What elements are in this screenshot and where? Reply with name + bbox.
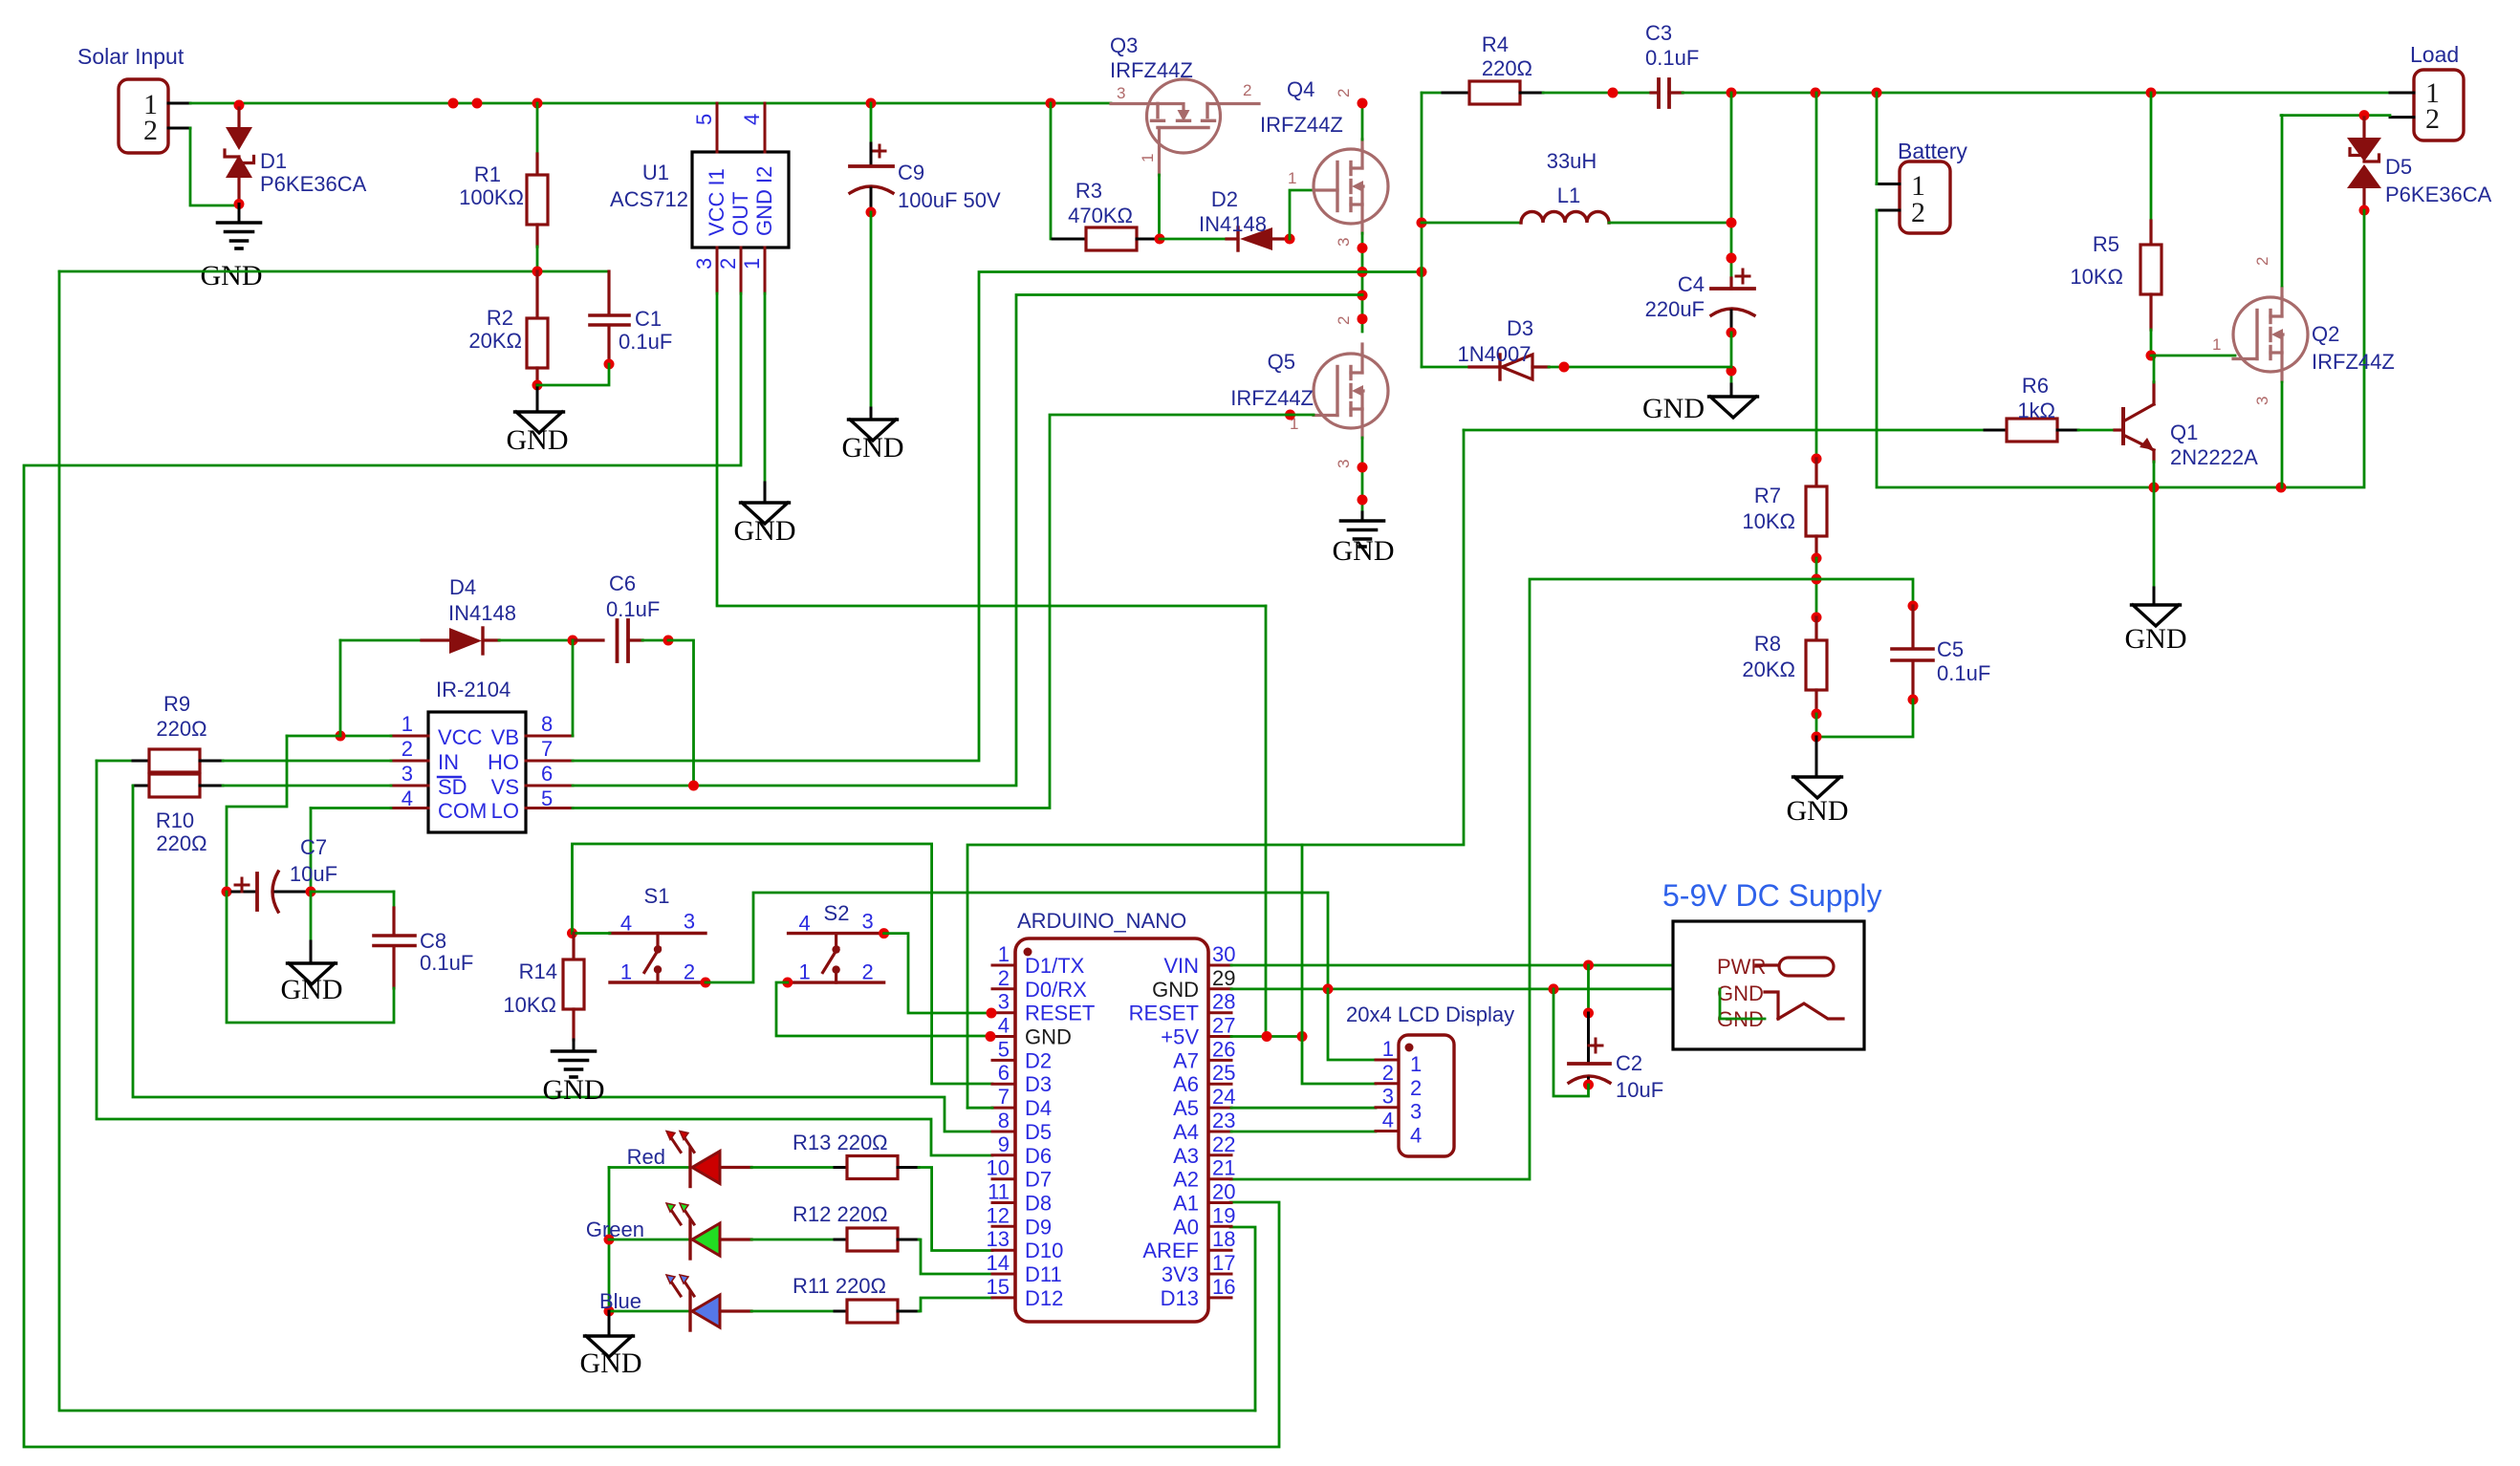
svg-text:0.1uF: 0.1uF — [619, 330, 672, 354]
svg-text:3: 3 — [1382, 1085, 1394, 1109]
node Q1 emitter / Q2 source on battery- row — [2149, 483, 2160, 493]
svg-text:5-9V DC Supply: 5-9V DC Supply — [1662, 878, 1881, 913]
svg-text:20x4 LCD Display: 20x4 LCD Display — [1346, 1002, 1514, 1026]
svg-text:HO: HO — [488, 750, 519, 774]
svg-text:2: 2 — [998, 966, 1010, 990]
svg-text:10uF: 10uF — [290, 862, 337, 886]
resistor R6 — [1985, 429, 2007, 432]
svg-text:2: 2 — [1335, 316, 1353, 325]
node C2 bottom — [1583, 1080, 1594, 1090]
svg-text:4: 4 — [798, 912, 810, 936]
wire S1 pin4 feed — [573, 932, 611, 935]
svg-text:R9: R9 — [163, 692, 190, 716]
svg-text:3: 3 — [1117, 84, 1125, 102]
svg-text:6: 6 — [541, 762, 553, 786]
svg-text:D12: D12 — [1025, 1286, 1063, 1310]
svg-text:U1: U1 — [642, 161, 669, 184]
svg-text:D8: D8 — [1025, 1192, 1052, 1216]
node D5 bottom — [2359, 205, 2370, 216]
wire S1 pin2 to gnd row — [706, 893, 1328, 992]
svg-text:GND: GND — [201, 260, 263, 291]
svg-text:R1: R1 — [474, 162, 501, 186]
svg-text:23: 23 — [1212, 1109, 1235, 1132]
wire A5 to LCD pin3 — [1231, 1107, 1376, 1110]
svg-text:20KΩ: 20KΩ — [468, 329, 522, 353]
wire D2 to Q4 gate — [1290, 190, 1314, 239]
wire divider row to left rail — [59, 270, 609, 273]
wire D4 riser to R6 — [1464, 429, 1985, 432]
diode D4 IN4148 — [340, 639, 422, 642]
svg-text:8: 8 — [998, 1109, 1010, 1132]
svg-text:12: 12 — [987, 1203, 1010, 1227]
svg-text:D6: D6 — [1025, 1144, 1052, 1168]
node GND pin4 — [986, 1031, 996, 1042]
LED Green — [688, 1220, 691, 1259]
svg-text:2: 2 — [2425, 103, 2440, 135]
svg-text:C2: C2 — [1616, 1051, 1642, 1075]
connector Load — [2414, 70, 2464, 140]
svg-text:IN4148: IN4148 — [448, 601, 516, 625]
ground C7 — [288, 963, 337, 984]
ground R14 (earth) — [573, 1040, 576, 1050]
wire Q2 source to battery- row — [2281, 382, 2284, 487]
svg-text:16: 16 — [1212, 1275, 1235, 1299]
svg-text:0.1uF: 0.1uF — [1645, 46, 1699, 70]
svg-text:R2: R2 — [487, 306, 513, 330]
node C9 bottom — [866, 207, 877, 218]
svg-text:IN: IN — [438, 750, 459, 774]
svg-text:Solar Input: Solar Input — [77, 44, 185, 69]
wire Q2 drain to load pin2 row — [2281, 116, 2284, 286]
inductor L1 — [1422, 222, 1521, 225]
svg-text:18: 18 — [1212, 1227, 1235, 1251]
svg-text:C4: C4 — [1678, 272, 1705, 296]
svg-text:VCC I1: VCC I1 — [705, 168, 728, 236]
node C6 right — [663, 636, 674, 646]
svg-text:10KΩ: 10KΩ — [2070, 265, 2123, 289]
wire LED common column — [608, 1168, 611, 1312]
svg-text:5: 5 — [998, 1037, 1010, 1061]
wire solar- to D1 — [190, 128, 239, 205]
pin U1.2 — [740, 248, 743, 293]
svg-text:ARDUINO_NANO: ARDUINO_NANO — [1017, 909, 1186, 933]
resistor R7 — [1814, 459, 1817, 486]
svg-text:D7: D7 — [1025, 1168, 1052, 1192]
LED Red — [688, 1149, 691, 1187]
wire green LED row — [609, 1239, 690, 1241]
svg-text:R6: R6 — [2022, 374, 2049, 398]
ground C9 — [849, 420, 898, 441]
svg-text:R7: R7 — [1754, 484, 1781, 507]
svg-text:10KΩ: 10KΩ — [1742, 509, 1795, 533]
svg-text:3V3: 3V3 — [1162, 1262, 1199, 1286]
svg-text:13: 13 — [987, 1227, 1010, 1251]
resistor R3 — [1053, 238, 1086, 241]
svg-text:220Ω: 220Ω — [156, 717, 206, 741]
svg-text:D1: D1 — [260, 149, 287, 173]
wire solar+ top rail — [190, 102, 1111, 105]
pin U1.5 — [716, 103, 719, 152]
ground LED common — [608, 1311, 611, 1335]
wire GND to LCD pin1 — [1328, 989, 1376, 1060]
wire VS to switch node — [573, 295, 1362, 787]
svg-text:29: 29 — [1212, 966, 1235, 990]
svg-text:A2: A2 — [1173, 1168, 1199, 1192]
svg-text:C7: C7 — [300, 835, 327, 859]
svg-text:2: 2 — [716, 258, 740, 269]
svg-text:D2: D2 — [1025, 1048, 1052, 1072]
node R7 bottom — [1812, 553, 1822, 564]
svg-text:7: 7 — [998, 1085, 1010, 1109]
resistor R9 — [97, 760, 133, 763]
svg-text:Q5: Q5 — [1268, 350, 1295, 374]
svg-text:A0: A0 — [1173, 1215, 1199, 1239]
node above R7 — [1812, 454, 1822, 464]
resistor R4 — [1469, 81, 1520, 104]
svg-text:0.1uF: 0.1uF — [606, 597, 660, 621]
svg-text:7: 7 — [541, 737, 553, 761]
resistor R13 — [751, 1166, 835, 1169]
svg-text:R13 220Ω: R13 220Ω — [793, 1131, 888, 1154]
svg-text:2: 2 — [1382, 1061, 1394, 1085]
svg-text:100KΩ: 100KΩ — [459, 185, 524, 209]
svg-text:GND: GND — [580, 1347, 642, 1379]
svg-text:2: 2 — [1410, 1076, 1422, 1100]
diode D3 1N4007 — [1469, 365, 1500, 368]
wire mid node to C5 — [1816, 579, 1913, 606]
svg-text:IRFZ44Z: IRFZ44Z — [2312, 350, 2395, 374]
svg-text:10uF: 10uF — [1616, 1078, 1663, 1102]
switch S1 — [610, 932, 706, 935]
svg-text:+5V: +5V — [1161, 1025, 1199, 1049]
ground Q5 (earth) — [1341, 519, 1384, 523]
resistor R2 — [535, 271, 538, 318]
wire C4 to D3 node — [1730, 333, 1733, 384]
wire +5V row — [1231, 1035, 1302, 1038]
wire C5 return — [1816, 700, 1913, 737]
svg-text:10: 10 — [987, 1156, 1010, 1180]
svg-text:D5: D5 — [2385, 155, 2412, 179]
svg-text:A3: A3 — [1173, 1144, 1199, 1168]
wire load pin2 row — [2281, 114, 2390, 117]
svg-text:220Ω: 220Ω — [156, 831, 206, 855]
node before C3 — [1608, 88, 1618, 98]
svg-text:GND: GND — [734, 515, 796, 547]
wire switch node to L1 column — [1362, 270, 1422, 273]
ground R2 — [536, 385, 539, 411]
capacitor C2 electrolytic — [1587, 965, 1590, 1013]
svg-text:9: 9 — [998, 1132, 1010, 1156]
wire divider tap to A0 rail — [59, 271, 1255, 1411]
svg-text:GND: GND — [543, 1074, 605, 1106]
junction dots top rail — [448, 98, 459, 109]
wire C7- to ground — [310, 892, 313, 941]
IC U2 IR-2104 box — [428, 712, 526, 832]
wire +5V to LCD pin2 — [1302, 1037, 1376, 1085]
pin1 marker Arduino — [1024, 948, 1032, 957]
svg-text:GND: GND — [507, 424, 569, 456]
svg-text:10KΩ: 10KΩ — [503, 993, 556, 1017]
wire VIN row to supply — [1231, 964, 1756, 967]
svg-text:R5: R5 — [2093, 232, 2119, 256]
svg-text:2N2222A: 2N2222A — [2170, 445, 2258, 469]
node D3 anode — [1559, 362, 1570, 373]
node R8 bottom — [1812, 709, 1822, 720]
svg-text:D5: D5 — [1025, 1120, 1052, 1144]
svg-text:3: 3 — [1410, 1100, 1422, 1124]
wire Q4 source node chain — [1361, 233, 1364, 332]
svg-text:3: 3 — [402, 762, 413, 786]
svg-text:GND: GND — [842, 432, 904, 464]
svg-text:COM: COM — [438, 799, 487, 823]
svg-text:17: 17 — [1212, 1251, 1235, 1275]
node D1 bottom — [234, 199, 245, 209]
svg-text:1: 1 — [1410, 1052, 1422, 1076]
node R2 bottom — [532, 380, 543, 391]
ground Q1 — [2132, 605, 2181, 626]
IC U1 ACS712 box — [692, 152, 789, 248]
svg-text:R14: R14 — [519, 959, 557, 983]
LCD pin stubs — [1376, 1059, 1399, 1062]
wire D4 to R6/+5V net — [967, 1107, 992, 1110]
svg-text:Q1: Q1 — [2170, 420, 2198, 444]
svg-text:15: 15 — [987, 1275, 1010, 1299]
ground R8 — [1815, 737, 1818, 776]
svg-text:GND: GND — [1717, 981, 1764, 1005]
svg-text:P6KE36CA: P6KE36CA — [2385, 183, 2492, 206]
svg-text:GND: GND — [1333, 535, 1395, 567]
svg-text:20: 20 — [1212, 1180, 1235, 1204]
svg-text:5: 5 — [692, 114, 716, 125]
svg-text:A1: A1 — [1173, 1192, 1199, 1216]
svg-text:ACS712: ACS712 — [610, 187, 688, 211]
ground D1 (earth) — [238, 205, 241, 222]
wire LO to Q5 gate — [573, 415, 1291, 808]
svg-text:1: 1 — [620, 960, 632, 984]
wire C8 bottom loop to C7+ — [227, 892, 394, 1023]
svg-text:1: 1 — [1139, 154, 1157, 162]
svg-text:D0/RX: D0/RX — [1025, 978, 1087, 1002]
svg-text:C8: C8 — [420, 929, 446, 953]
svg-text:1kΩ: 1kΩ — [2017, 399, 2055, 422]
svg-text:3: 3 — [2253, 397, 2271, 405]
connector P1 Solar Input — [119, 79, 168, 153]
wire R13 to D10 — [919, 1168, 992, 1251]
transistor Q5 IRFZ44Z — [1314, 354, 1388, 428]
svg-text:D10: D10 — [1025, 1239, 1063, 1262]
wire R11 to D12 — [919, 1298, 992, 1311]
wire VB riser — [572, 640, 575, 736]
resistor R1 — [536, 103, 539, 154]
svg-text:A4: A4 — [1173, 1120, 1199, 1144]
pin stub P1.1 — [168, 102, 190, 105]
svg-text:4: 4 — [620, 912, 632, 936]
wire C4 column top — [1730, 93, 1733, 278]
pin U1.4 — [764, 103, 767, 152]
svg-text:R10: R10 — [156, 808, 194, 832]
svg-text:20KΩ: 20KΩ — [1742, 658, 1795, 681]
diode D2 IN4148 — [1227, 237, 1238, 240]
svg-text:220uF: 220uF — [1645, 297, 1705, 321]
resistor R10 — [133, 785, 149, 787]
pin stubs Load — [2390, 92, 2414, 95]
svg-text:L1: L1 — [1557, 183, 1580, 207]
transistor Q4 IRFZ44Z — [1314, 149, 1388, 224]
svg-text:A6: A6 — [1173, 1072, 1199, 1096]
diode D5 TVS — [2362, 118, 2365, 140]
svg-text:SD: SD — [438, 775, 467, 799]
svg-text:GND: GND — [281, 974, 343, 1005]
wire C1 to R2 bottom — [537, 364, 609, 385]
wire Q3 gate drop / R3 riser — [1050, 103, 1053, 239]
wire Q5 gate lead — [1291, 414, 1314, 417]
svg-text:VS: VS — [491, 775, 519, 799]
wire R12 to D11 — [919, 1240, 992, 1274]
svg-text:R3: R3 — [1075, 179, 1102, 203]
svg-text:D1/TX: D1/TX — [1025, 954, 1085, 978]
svg-text:Battery: Battery — [1898, 139, 1967, 163]
svg-text:VIN: VIN — [1163, 954, 1199, 978]
svg-text:GND: GND — [1642, 393, 1705, 424]
wire Q1 collector to R5 node — [2153, 356, 2156, 382]
wire red LED row — [609, 1166, 690, 1169]
pin stubs IR2104 left — [391, 735, 428, 738]
wire U1 pin1 to ground — [764, 293, 767, 483]
svg-text:Q2: Q2 — [2312, 322, 2339, 346]
svg-text:RESET: RESET — [1025, 1002, 1095, 1025]
svg-text:IRFZ44Z: IRFZ44Z — [1230, 386, 1314, 410]
svg-text:19: 19 — [1212, 1203, 1235, 1227]
wire C3 to load rail — [1683, 92, 2390, 95]
wire A4 to LCD pin4 — [1231, 1131, 1376, 1133]
node RESET pin3 — [987, 1008, 997, 1019]
svg-text:2: 2 — [1335, 89, 1353, 97]
node R3/D2/Q3gate — [1155, 234, 1165, 245]
node S1 pin4 — [567, 928, 577, 938]
svg-text:3: 3 — [1335, 460, 1353, 468]
pin stubs IR2104 right — [526, 735, 573, 738]
wire C9 to ground — [870, 212, 873, 408]
svg-text:D2: D2 — [1211, 187, 1238, 211]
node S1 pin2 — [701, 978, 711, 988]
capacitor C1 — [607, 271, 610, 313]
svg-text:25: 25 — [1212, 1061, 1235, 1085]
svg-text:1: 1 — [1382, 1037, 1394, 1061]
svg-text:2: 2 — [861, 960, 873, 984]
svg-text:28: 28 — [1212, 990, 1235, 1014]
pin U1.1 — [764, 248, 767, 293]
wire C7 row to C8 — [311, 891, 394, 894]
IC U3 ARDUINO_NANO box — [1015, 938, 1208, 1322]
svg-text:1: 1 — [1288, 169, 1296, 187]
svg-text:D4: D4 — [1025, 1096, 1052, 1120]
node D2 anode — [1285, 234, 1295, 245]
svg-text:470KΩ: 470KΩ — [1068, 204, 1133, 227]
wire VCC node — [340, 735, 391, 738]
svg-text:27: 27 — [1212, 1014, 1235, 1038]
svg-text:D4: D4 — [449, 575, 476, 599]
connector LCD — [1399, 1035, 1454, 1156]
svg-text:21: 21 — [1212, 1156, 1235, 1180]
svg-text:1: 1 — [2212, 335, 2221, 354]
svg-text:D13: D13 — [1161, 1286, 1199, 1310]
wire HO to switch node — [573, 272, 1362, 762]
svg-text:Red: Red — [627, 1145, 665, 1169]
svg-text:1: 1 — [798, 960, 810, 984]
svg-text:C6: C6 — [609, 571, 636, 595]
svg-text:3: 3 — [692, 258, 716, 269]
transistor Q3 IRFZ44Z — [1147, 79, 1221, 153]
transistor Q2 IRFZ44Z — [2233, 297, 2308, 372]
wire R10 to D5 route — [133, 786, 992, 1132]
capacitor C4 electrolytic — [1729, 278, 1732, 289]
svg-text:D9: D9 — [1025, 1215, 1052, 1239]
svg-text:6: 6 — [998, 1061, 1010, 1085]
wire Q5 source to ground — [1361, 438, 1364, 512]
svg-text:RESET: RESET — [1129, 1002, 1199, 1025]
transistor Q1 2N2222A — [2115, 428, 2123, 431]
svg-text:1: 1 — [740, 258, 764, 269]
svg-text:4: 4 — [1410, 1124, 1422, 1148]
svg-text:C9: C9 — [898, 161, 924, 184]
LED Blue — [688, 1292, 691, 1330]
wire GND row to supply — [1231, 987, 1720, 990]
wire top rail to Q4 drain — [1361, 103, 1364, 140]
node D1 top — [234, 100, 245, 111]
svg-text:1N4007: 1N4007 — [1457, 342, 1531, 366]
svg-text:D3: D3 — [1025, 1072, 1052, 1096]
svg-text:P6KE36CA: P6KE36CA — [260, 172, 367, 196]
wire C2 return to GND row — [1553, 989, 1589, 1096]
wire D3 row — [1422, 366, 1469, 369]
node C5 top — [1908, 601, 1919, 612]
node Q4 source junctions — [1358, 243, 1368, 253]
svg-text:33uH: 33uH — [1547, 149, 1597, 173]
wire U1 VCC to +5V riser — [717, 293, 1266, 606]
resistor R12 — [751, 1239, 835, 1241]
wire R3 to D2 — [1160, 238, 1227, 241]
svg-text:0.1uF: 0.1uF — [1937, 661, 1990, 685]
svg-text:Q4: Q4 — [1287, 77, 1314, 101]
diode D1 TVS — [237, 108, 240, 129]
capacitor C8 — [392, 908, 395, 934]
svg-text:VB: VB — [491, 725, 519, 749]
switch S2 — [789, 932, 884, 935]
Arduino right pins — [1208, 964, 1231, 967]
node R8/C5 gnd join — [1812, 732, 1822, 743]
node above R8 — [1812, 613, 1822, 623]
node D5 top — [2359, 110, 2370, 120]
capacitor C5 — [1911, 606, 1914, 647]
node R1/R2/C1 — [532, 267, 543, 277]
svg-text:8: 8 — [541, 712, 553, 736]
wire COM to C7- — [311, 807, 391, 809]
svg-text:C5: C5 — [1937, 637, 1964, 661]
wire C6 right to VS — [668, 640, 694, 786]
svg-text:A7: A7 — [1173, 1048, 1199, 1072]
svg-text:Green: Green — [586, 1218, 644, 1241]
svg-text:11: 11 — [988, 1180, 1010, 1204]
svg-text:R11 220Ω: R11 220Ω — [793, 1274, 886, 1298]
svg-text:C1: C1 — [635, 307, 662, 331]
resistor R11 — [751, 1310, 835, 1313]
wire R7/R8 mid node — [1815, 558, 1818, 617]
ground U1 pin1 — [741, 503, 790, 524]
svg-text:2: 2 — [1911, 197, 1925, 228]
svg-text:D3: D3 — [1507, 316, 1533, 340]
wire VCC to C7+ jog — [287, 735, 340, 738]
svg-text:4: 4 — [740, 114, 764, 125]
